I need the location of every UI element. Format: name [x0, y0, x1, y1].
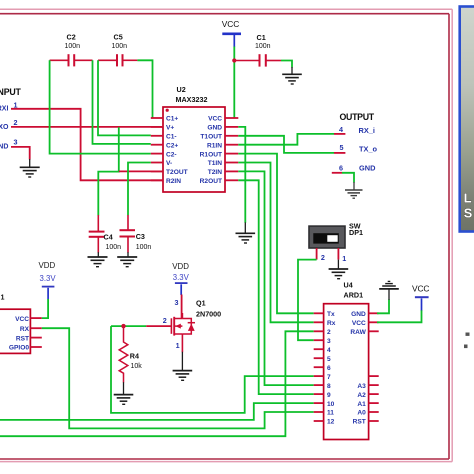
wire Q1 source to ground (black) [181, 352, 183, 371]
wire switch pin1 to ground (black) [337, 260, 339, 269]
svg-text:6: 6 [327, 365, 331, 372]
cropped text marks right margin [464, 333, 470, 349]
transistor Q1 symbol [171, 313, 191, 352]
svg-text:VCC: VCC [222, 19, 239, 29]
svg-text:R1IN: R1IN [207, 142, 222, 149]
wire C1 right to ground (green) [281, 61, 292, 68]
svg-text:1: 1 [342, 254, 346, 263]
wire U4 GND to ground above (green) [377, 300, 389, 314]
wire V+ tap down to C4 and T2OUT corner (green) [98, 127, 119, 215]
svg-text:1: 1 [1, 293, 5, 302]
svg-text:100n: 100n [255, 43, 271, 50]
wire input pin2 to U2 V+ (red) [11, 126, 163, 128]
ground C1 [282, 67, 302, 84]
svg-text:V-: V- [166, 160, 172, 167]
svg-text:C5: C5 [114, 32, 123, 41]
svg-text:2: 2 [321, 253, 325, 262]
schematic frame inner crimson line top [0, 13, 449, 15]
ground U4 GND (inverted) [379, 281, 399, 300]
pin 4 stub [334, 133, 345, 135]
switch DP1 body [309, 226, 345, 248]
power symbol VCC top [222, 19, 241, 47]
resistor R4 [119, 326, 128, 382]
ground C3 [117, 252, 137, 267]
pin 6 stub [332, 172, 342, 174]
ground C4 [88, 252, 108, 267]
svg-text:S: S [464, 206, 473, 221]
left chip pin labels [9, 316, 30, 352]
svg-text:U4: U4 [344, 280, 353, 289]
capacitor C2 [50, 54, 93, 66]
wire V- to C3 (green) [128, 163, 151, 216]
svg-text:100n: 100n [106, 244, 122, 251]
svg-text:C1-: C1- [166, 134, 177, 141]
svg-text:3: 3 [327, 338, 331, 345]
wire input pin1 to U2 R2IN (red) [11, 109, 163, 181]
svg-text:3: 3 [175, 298, 179, 307]
svg-text:OUTPUT: OUTPUT [340, 112, 375, 122]
svg-text:1: 1 [176, 341, 180, 350]
svg-text:100n: 100n [112, 43, 128, 50]
svg-text:T1OUT: T1OUT [200, 134, 222, 141]
wire from off-page to ARD1 pin2 (green) [0, 331, 314, 436]
svg-text:ARD1: ARD1 [344, 290, 364, 299]
svg-text:VCC: VCC [412, 284, 429, 294]
svg-text:C1: C1 [257, 33, 266, 42]
svg-text:MAX3232: MAX3232 [176, 95, 208, 104]
svg-text:GPIO0: GPIO0 [9, 345, 29, 352]
Q1 body diode [188, 323, 195, 331]
svg-text:TX_o: TX_o [359, 144, 378, 153]
svg-text:GND: GND [0, 144, 8, 151]
svg-text:7: 7 [327, 374, 331, 381]
U2 left pin stubs [151, 118, 163, 180]
wire R4 to ground (black) [123, 382, 125, 394]
svg-text:3.3V: 3.3V [173, 273, 190, 282]
svg-text:Q1: Q1 [196, 298, 206, 307]
svg-text:A2: A2 [357, 392, 366, 399]
wire U2 GND to ground (green) [238, 127, 245, 223]
wire T1OUT to output pin5 (green) [238, 136, 334, 153]
schematic frame outer pink line right [451, 9, 453, 461]
svg-text:6: 6 [339, 164, 343, 173]
wire VDD to Q1 drain (red) [181, 295, 183, 319]
svg-text:U2: U2 [177, 85, 186, 94]
svg-text:2: 2 [327, 329, 331, 336]
svg-text:TXO: TXO [0, 124, 9, 131]
svg-text:100n: 100n [65, 43, 81, 50]
svg-text:V+: V+ [166, 125, 174, 132]
svg-text:R4: R4 [130, 352, 139, 361]
wire T2OUT red segment [119, 170, 163, 172]
power symbol VDD 3.3V left [39, 261, 57, 299]
svg-text:C2: C2 [67, 32, 76, 41]
svg-text:11: 11 [327, 410, 334, 417]
svg-text:VCC: VCC [352, 320, 366, 327]
svg-text:INPUT: INPUT [0, 87, 22, 97]
U2 right pin labels [200, 116, 223, 185]
svg-text:2: 2 [14, 118, 18, 127]
svg-text:3.3V: 3.3V [40, 274, 57, 283]
wire VDD to left chip VCC (green) [42, 299, 48, 318]
wire C5 right to C1+ pin (green) [137, 60, 152, 118]
svg-text:A3: A3 [357, 383, 366, 390]
svg-text:C1+: C1+ [166, 116, 178, 123]
photo fragment with blue border (top right, cropped) [460, 7, 474, 232]
wire gate red segment [146, 325, 171, 327]
ground output pin6 [345, 182, 363, 198]
svg-text:VDD: VDD [39, 261, 56, 270]
wire T2IN to ARD1 pin8 (green) [238, 171, 313, 385]
svg-text:GND: GND [359, 164, 376, 173]
switch pin 1 stub [337, 248, 339, 260]
U4 right pin stubs [369, 313, 379, 421]
svg-text:C4: C4 [104, 233, 113, 242]
svg-text:VCC: VCC [15, 316, 29, 323]
U4 right pin labels [350, 311, 366, 426]
ground input pin3 [20, 159, 40, 177]
power symbol VCC right [412, 284, 429, 311]
wire C2 left to C2- pin (green) [50, 60, 151, 153]
switch pin 2 stub [316, 248, 318, 260]
schematic frame inner crimson line bottom [0, 458, 449, 460]
svg-text:R2IN: R2IN [166, 178, 181, 185]
svg-text:3: 3 [14, 137, 18, 146]
svg-text:RX: RX [20, 326, 30, 333]
svg-text:T2IN: T2IN [208, 169, 223, 176]
wire pin6 to ground (green) [342, 173, 354, 183]
wire U4 VCC to VCC symbol (green) [377, 310, 422, 322]
svg-text:VCC: VCC [208, 116, 222, 123]
wire C2 right to C2+ pin (green) [93, 60, 151, 144]
svg-text:C2+: C2+ [166, 142, 178, 149]
svg-text:Tx: Tx [327, 311, 335, 318]
svg-text:R2OUT: R2OUT [200, 178, 222, 185]
capacitor C1 [236, 54, 282, 66]
wire gate junction to ARD1 pin7 (green) [111, 326, 314, 413]
svg-text:DP1: DP1 [349, 228, 363, 237]
wire C5 left to C1- pin (green) [98, 60, 151, 135]
ground U2 GND [236, 222, 256, 243]
ground switch pin1 [329, 269, 349, 279]
wire gate net green segment [111, 325, 146, 327]
svg-text:L: L [464, 191, 472, 206]
svg-text:8: 8 [327, 383, 331, 390]
svg-text:A0: A0 [357, 410, 366, 417]
svg-text:RX_i: RX_i [359, 126, 375, 135]
wire R1IN to output pin4 (green) [238, 134, 334, 145]
switch DP1 slider [327, 235, 337, 242]
svg-text:T1IN: T1IN [208, 160, 223, 167]
svg-text:12: 12 [327, 419, 335, 426]
svg-text:2: 2 [163, 316, 167, 325]
svg-text:T2OUT: T2OUT [166, 169, 188, 176]
U2 pin-1 dot [166, 109, 169, 112]
schematic frame inner crimson line right [448, 14, 450, 459]
svg-text:Rx: Rx [327, 320, 336, 327]
svg-text:GND: GND [351, 311, 366, 318]
wire input pin3 down (red) [11, 147, 30, 160]
svg-text:10: 10 [327, 401, 335, 408]
left chip body (cropped at edge) [0, 309, 30, 353]
ground Q1 source [173, 371, 193, 381]
svg-text:R1OUT: R1OUT [200, 151, 222, 158]
pin 5 stub [334, 152, 345, 154]
svg-text:RST: RST [353, 419, 366, 426]
left chip pin stubs [30, 318, 41, 347]
svg-text:9: 9 [327, 392, 331, 399]
svg-text:RXI: RXI [0, 106, 8, 113]
wire R1OUT to ARD1 Tx (green) [238, 154, 313, 314]
U2 right pin stubs [225, 118, 238, 180]
capacitor C3 [120, 215, 136, 253]
capacitor C5 [98, 54, 137, 66]
svg-text:C3: C3 [136, 232, 145, 241]
svg-text:2N7000: 2N7000 [196, 309, 221, 318]
svg-text:VDD: VDD [172, 262, 189, 271]
svg-text:5: 5 [327, 356, 331, 363]
svg-text:5: 5 [340, 143, 344, 152]
svg-text:RAW: RAW [350, 329, 366, 336]
svg-text:4: 4 [339, 125, 343, 134]
U2 left pin labels [166, 116, 188, 185]
svg-text:C2-: C2- [166, 151, 177, 158]
U2 body [163, 107, 225, 192]
schematic frame outer pink line top [0, 8, 452, 10]
svg-text:100n: 100n [136, 244, 152, 251]
switch DP1 slot [313, 233, 339, 243]
U4 left pin stubs [314, 313, 324, 421]
svg-text:10k: 10k [131, 363, 143, 370]
schematic frame outer pink line bottom [0, 461, 452, 463]
U4 left pin labels [327, 311, 336, 426]
svg-text:RST: RST [16, 335, 29, 342]
junction node gate/R4 [121, 324, 125, 328]
svg-text:A1: A1 [357, 401, 366, 408]
wire R2OUT to ARD1 pin9 (green) [238, 180, 313, 394]
svg-text:4: 4 [327, 347, 331, 354]
wire from off-page to ARD1 pin10 (green) [0, 403, 314, 420]
ground R4 [114, 395, 134, 405]
wire T1IN to ARD1 Rx (green) [238, 163, 313, 323]
wire left chip RX to ARD1 pin11 (green) [42, 328, 314, 428]
wire VCC down to U2 VCC pin (green) [233, 47, 235, 119]
wire switch pin2 to ARD1 pin3 (green) [298, 260, 317, 341]
capacitor C4 [89, 215, 105, 253]
junction node VCC/C1 [232, 58, 236, 62]
svg-text:GND: GND [207, 125, 222, 132]
Q1 body arrow [175, 324, 180, 329]
power symbol VDD 3.3V right [172, 262, 189, 295]
U4 body [324, 304, 369, 440]
